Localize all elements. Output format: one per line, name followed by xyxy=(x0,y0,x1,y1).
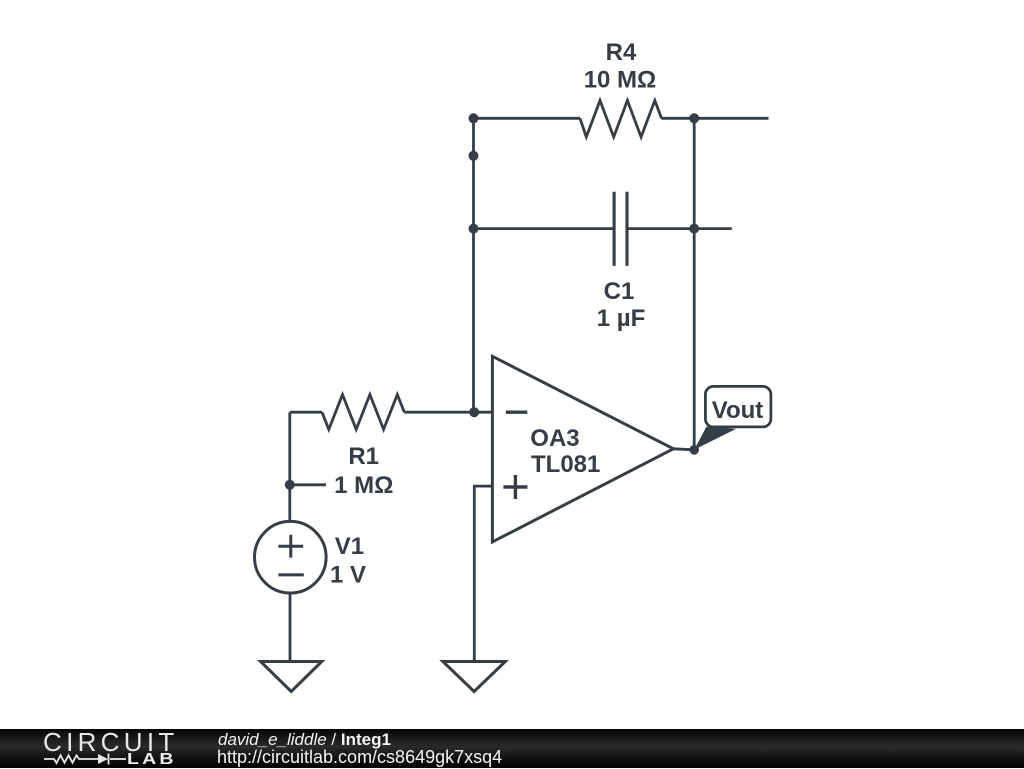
node: output junction xyxy=(689,445,699,455)
node: cap row right junction xyxy=(689,224,699,234)
wire: non-inverting input to ground xyxy=(474,486,492,661)
resistor R1 xyxy=(322,395,404,430)
op-amp plus symbol xyxy=(503,475,527,499)
credits line 2 xyxy=(217,747,502,768)
ground (V1) xyxy=(261,662,322,692)
footer bar xyxy=(0,729,1024,768)
node: left wire joint xyxy=(469,151,479,161)
Vout callout box xyxy=(705,386,771,427)
svg-text:1 V: 1 V xyxy=(330,562,366,589)
wire: right vertical feedback xyxy=(693,118,696,450)
CircuitLab logo wire-resistor-diode glyph xyxy=(40,750,132,768)
CircuitLab logo wordmark LAB xyxy=(127,751,177,769)
wire: R4 right lead to node xyxy=(662,117,695,120)
op-amp minus symbol xyxy=(506,411,528,414)
svg-text:10 MΩ: 10 MΩ xyxy=(584,67,657,94)
wire: R1 left lead xyxy=(290,411,322,414)
svg-text:C1: C1 xyxy=(604,278,635,305)
node: cap row left junction xyxy=(469,224,479,234)
wire: capacitor row right xyxy=(627,227,694,230)
resistor R4 xyxy=(580,101,662,138)
svg-text:R4: R4 xyxy=(606,39,637,66)
CircuitLab logo wordmark CIRCUIT xyxy=(43,727,179,758)
svg-text:1 µF: 1 µF xyxy=(597,305,646,332)
Vout callout tail xyxy=(694,427,736,450)
wire: capacitor row left xyxy=(474,227,615,230)
svg-text:R1: R1 xyxy=(348,443,379,470)
ground (op-amp +) xyxy=(443,662,505,692)
wire: top feedback row left segment xyxy=(474,117,581,120)
wire: op-amp output xyxy=(673,449,694,450)
wire: left vertical feedback xyxy=(472,118,475,412)
svg-text:1 MΩ: 1 MΩ xyxy=(334,472,393,499)
node: inverting input junction xyxy=(469,407,479,417)
wire: stub right of top node xyxy=(694,117,768,120)
capacitor C1 xyxy=(614,192,627,266)
svg-text:OA3: OA3 xyxy=(530,425,579,452)
wire: label stub at V1 plus node xyxy=(290,483,326,486)
svg-text:V1: V1 xyxy=(335,533,364,560)
svg-text:TL081: TL081 xyxy=(531,451,600,478)
node: V1 plus junction xyxy=(285,480,295,490)
node: top left junction xyxy=(469,113,479,123)
wire: stub right of cap node xyxy=(694,227,732,230)
op-amp U1 triangle xyxy=(492,356,673,542)
credits line 1 xyxy=(218,730,391,750)
wire: V1 bottom to ground xyxy=(289,593,292,662)
svg-text:Vout: Vout xyxy=(712,397,764,424)
node: top right junction xyxy=(689,113,699,123)
wire: R1 to inverting input xyxy=(404,411,492,414)
voltage source V1 xyxy=(254,521,326,593)
wire: V1 top vertical xyxy=(288,412,291,520)
